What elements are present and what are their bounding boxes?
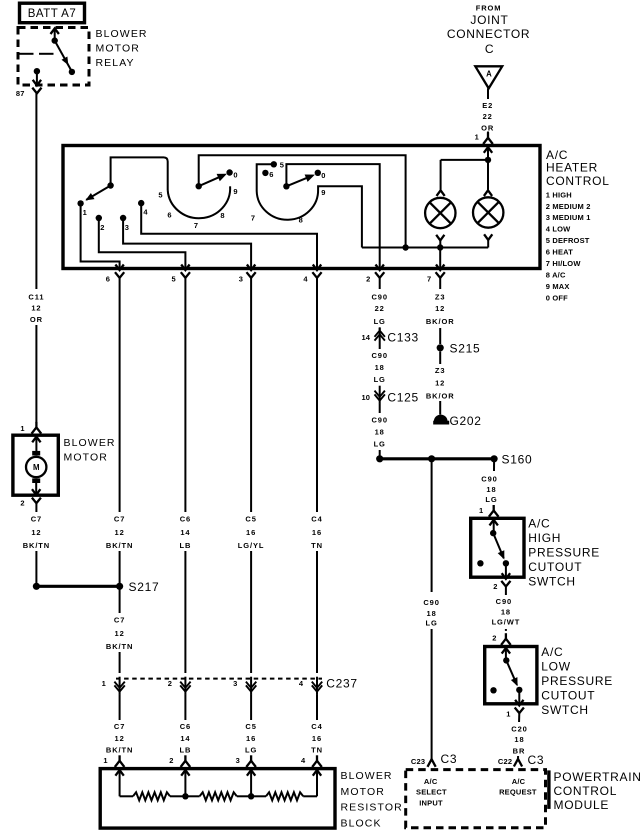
connector C237 cavity 4 symbol <box>316 677 318 695</box>
svg-text:87: 87 <box>16 89 25 98</box>
low pressure switch blade <box>506 660 517 685</box>
blower motor brush top <box>32 451 40 456</box>
svg-text:CUTOUT: CUTOUT <box>528 560 582 574</box>
S160 bus left dot <box>376 455 383 462</box>
svg-text:C125: C125 <box>387 390 419 404</box>
svg-text:3: 3 <box>239 274 243 283</box>
svg-text:16: 16 <box>312 528 322 537</box>
svg-text:8: 8 <box>299 216 303 225</box>
rotary switch 1 center dot <box>196 183 202 189</box>
fan switch contact 1 dot <box>77 200 83 206</box>
svg-text:9 MAX: 9 MAX <box>546 282 570 291</box>
svg-text:OR: OR <box>481 123 494 132</box>
low pressure switch pin 1 exit <box>518 690 520 703</box>
A/C heater control pin 7 connector <box>436 265 444 271</box>
blower motor resistor block box <box>100 769 335 829</box>
svg-text:LG/WT: LG/WT <box>492 618 521 627</box>
rotary switch 1 contact 0 dot <box>226 169 232 175</box>
svg-text:C6: C6 <box>180 722 191 731</box>
connector C237 dashed line <box>116 678 322 680</box>
relay wire to BATT A7 with up arrow <box>54 29 56 40</box>
svg-text:C5: C5 <box>245 514 256 523</box>
svg-text:Z3: Z3 <box>435 292 446 301</box>
svg-text:14: 14 <box>180 734 190 743</box>
relay switch blade <box>55 41 71 70</box>
illumination lamp 1 <box>425 198 455 228</box>
wire C6 14 LB (pin 5 to C237) <box>184 278 186 673</box>
svg-text:2: 2 <box>169 756 173 765</box>
blower motor brush bottom <box>32 478 40 483</box>
svg-text:C7: C7 <box>31 514 42 523</box>
A/C heater control pin 5 connector <box>181 265 189 271</box>
svg-text:12: 12 <box>115 629 125 638</box>
svg-text:RELAY: RELAY <box>96 57 135 69</box>
wire C20 18 BR (low pressure switch to PCM) <box>518 713 519 759</box>
joint connector A triangle symbol <box>475 66 502 88</box>
svg-text:2: 2 <box>493 582 497 591</box>
wire lamp bus to pin 7 <box>439 248 441 268</box>
svg-text:CONTROL: CONTROL <box>546 174 610 188</box>
connector fork at blower motor pin 2 <box>32 498 41 504</box>
svg-text:RESISTOR: RESISTOR <box>341 802 403 814</box>
svg-text:LG: LG <box>245 746 257 755</box>
svg-text:18: 18 <box>501 608 511 617</box>
svg-text:C23: C23 <box>411 757 425 766</box>
svg-text:BR: BR <box>513 747 526 756</box>
S160 bus right dot <box>491 455 498 462</box>
svg-text:S217: S217 <box>129 580 160 594</box>
high pressure switch top contact dot <box>490 530 496 536</box>
svg-text:C133: C133 <box>387 330 419 344</box>
svg-text:INPUT: INPUT <box>419 798 443 807</box>
lamp feed wire horizontal <box>441 159 488 161</box>
svg-text:MODULE: MODULE <box>554 798 610 812</box>
relay blade end contact dot <box>69 69 75 75</box>
svg-text:BK/TN: BK/TN <box>106 541 133 550</box>
svg-text:OR: OR <box>30 315 43 324</box>
connector fork at relay pin 87 <box>32 88 41 94</box>
svg-text:1: 1 <box>102 679 106 688</box>
svg-text:12: 12 <box>115 734 125 743</box>
relay pin 87 exit arrow <box>36 71 38 84</box>
svg-text:3: 3 <box>125 223 129 232</box>
mode switch contact 5 feed wire <box>257 164 274 191</box>
svg-text:10: 10 <box>361 393 370 402</box>
low pressure switch top contact dot <box>503 657 509 663</box>
svg-text:JOINT: JOINT <box>470 13 508 27</box>
connector at blower motor pin 1 <box>32 427 42 433</box>
svg-text:FROM: FROM <box>476 4 502 13</box>
wire contact 3 to pin 3 <box>123 218 251 268</box>
illumination lamp 2 <box>473 197 503 227</box>
resistor block pin 4 internal wire <box>316 770 318 796</box>
fan switch contact 4 dot <box>138 200 144 206</box>
svg-text:18: 18 <box>514 735 524 744</box>
wire C90 18 LG (S160 to PCM A/C select input) <box>431 459 433 759</box>
svg-text:C20: C20 <box>511 724 527 733</box>
connector C237 cavity 2 symbol <box>184 677 186 695</box>
svg-text:M: M <box>33 463 40 472</box>
svg-text:C7: C7 <box>114 514 125 523</box>
resistor block pin 3 connector <box>246 761 256 767</box>
illumination feed dot <box>487 147 489 160</box>
fan switch rotary arc <box>168 186 230 218</box>
svg-text:C90: C90 <box>481 475 497 484</box>
svg-text:LG: LG <box>374 317 386 326</box>
svg-text:LB: LB <box>179 541 191 550</box>
mode switch arc output wire <box>318 186 362 247</box>
svg-text:12: 12 <box>31 304 41 313</box>
svg-text:BLOWER: BLOWER <box>341 770 393 782</box>
svg-text:LG: LG <box>425 619 437 628</box>
svg-text:TN: TN <box>311 541 323 550</box>
svg-text:REQUEST: REQUEST <box>499 788 537 797</box>
powertrain control module dashed box <box>406 770 546 828</box>
svg-text:C11: C11 <box>28 292 44 301</box>
svg-text:8 A/C: 8 A/C <box>546 270 566 279</box>
resistor R2 <box>185 795 199 797</box>
lamp 1 connector bottom <box>436 235 444 241</box>
svg-text:BK/TN: BK/TN <box>106 746 133 755</box>
svg-text:14: 14 <box>180 528 190 537</box>
svg-text:C90: C90 <box>371 351 387 360</box>
A/C heater control pin 4 connector <box>313 265 321 271</box>
svg-text:BK/TN: BK/TN <box>106 642 133 651</box>
relay terminal 87 contact dot <box>34 68 40 74</box>
resistor block pin 3 internal wire <box>250 770 252 796</box>
lamp bus junction dot right <box>437 244 443 250</box>
svg-text:C7: C7 <box>114 615 125 624</box>
svg-text:3 MEDIUM 1: 3 MEDIUM 1 <box>546 213 591 222</box>
low pressure switch bottom contact dot <box>516 687 522 693</box>
svg-text:2: 2 <box>100 223 104 232</box>
svg-text:22: 22 <box>375 304 385 313</box>
splice S215 dot <box>437 344 444 351</box>
PCM label bracket bar <box>547 770 550 809</box>
svg-text:18: 18 <box>486 485 496 494</box>
svg-text:C4: C4 <box>311 514 322 523</box>
svg-text:Z3: Z3 <box>435 366 446 375</box>
svg-text:C3: C3 <box>441 752 458 766</box>
svg-text:12: 12 <box>31 528 41 537</box>
svg-text:1: 1 <box>83 208 87 217</box>
resistor junction dot 2 <box>248 793 254 799</box>
resistor block pin 1 connector <box>115 761 125 767</box>
wire Z3 12 BK/OR (pin 7 to S215) <box>439 278 441 344</box>
svg-text:1: 1 <box>475 132 479 141</box>
svg-text:C90: C90 <box>371 416 387 425</box>
lamp 2 connector bottom <box>484 234 492 240</box>
connector C237 cavity 3 symbol <box>250 677 252 695</box>
svg-text:A: A <box>486 70 492 79</box>
svg-text:6: 6 <box>106 274 110 283</box>
svg-text:LG: LG <box>374 375 386 384</box>
svg-text:C6: C6 <box>180 514 191 523</box>
fan switch contact 2 dot <box>96 215 102 221</box>
svg-text:12: 12 <box>435 304 445 313</box>
svg-text:S215: S215 <box>450 341 481 355</box>
svg-text:BLOCK: BLOCK <box>341 817 382 829</box>
fan switch feed wire (pivot to arc) <box>111 157 168 190</box>
svg-text:PRESSURE: PRESSURE <box>528 546 600 560</box>
low pressure switch open contact dot <box>490 687 496 693</box>
svg-text:C3: C3 <box>528 753 545 767</box>
A/C high pressure cutout switch box <box>471 518 524 577</box>
svg-text:A/C: A/C <box>541 645 563 659</box>
fan switch pivot dot <box>107 182 113 188</box>
wire contact 1 to pin 6 <box>81 203 120 267</box>
svg-text:BK/OR: BK/OR <box>426 391 455 400</box>
svg-text:C22: C22 <box>498 757 512 766</box>
svg-text:SWTCH: SWTCH <box>541 703 589 717</box>
wire C7 12 BK/TN (C237 to resistor block pin 1) <box>119 695 121 756</box>
wire C6 14 LB (C237 to resistor block pin 2) <box>184 695 186 756</box>
svg-text:LG: LG <box>374 440 386 449</box>
mode switch contact 5 dot <box>271 161 277 167</box>
svg-text:MOTOR: MOTOR <box>64 452 108 464</box>
svg-text:1: 1 <box>506 709 510 718</box>
svg-text:C237: C237 <box>326 677 358 691</box>
svg-text:5 DEFROST: 5 DEFROST <box>546 236 590 245</box>
svg-text:12: 12 <box>115 528 125 537</box>
wire C90 22 LG (pin 2 to C133) <box>379 278 381 330</box>
resistor R1 <box>120 795 133 797</box>
connector C237 cavity 1 symbol <box>119 677 121 695</box>
svg-text:A/C: A/C <box>424 777 438 786</box>
wire contact 2 to pin 5 <box>99 218 186 268</box>
svg-text:BK/TN: BK/TN <box>23 541 50 550</box>
svg-text:16: 16 <box>246 528 256 537</box>
svg-text:2 MEDIUM 2: 2 MEDIUM 2 <box>546 202 591 211</box>
wire C4 16 TN (pin 4 to C237) <box>316 278 318 673</box>
wire Z3 12 BK/OR (S215 to G202) <box>439 351 441 414</box>
svg-text:4: 4 <box>143 208 148 217</box>
low pressure switch internal wire <box>505 648 507 660</box>
resistor block pin 4 connector <box>312 761 322 767</box>
splice S217 left dot <box>33 583 40 590</box>
svg-text:TN: TN <box>311 746 323 755</box>
svg-text:C4: C4 <box>311 722 322 731</box>
wire contact 4 to pin 4 <box>141 203 317 267</box>
svg-text:4: 4 <box>303 274 308 283</box>
wire C5 16 LG (C237 to resistor block pin 3) <box>250 695 252 756</box>
svg-text:9: 9 <box>321 188 325 197</box>
wire C90 18 LG (C133 to C125) <box>379 346 381 387</box>
fan switch contact 3 dot <box>120 215 126 221</box>
svg-text:18: 18 <box>375 428 385 437</box>
svg-text:CONTROL: CONTROL <box>554 784 618 798</box>
relay common node dot <box>52 37 58 43</box>
svg-text:9: 9 <box>233 187 237 196</box>
lamp return bus <box>362 247 488 249</box>
svg-text:1: 1 <box>103 756 107 765</box>
svg-text:CONNECTOR: CONNECTOR <box>447 27 530 41</box>
svg-text:7 HI/LOW: 7 HI/LOW <box>546 259 582 268</box>
svg-text:7: 7 <box>251 214 255 223</box>
svg-text:7: 7 <box>427 274 431 283</box>
svg-text:4: 4 <box>301 756 306 765</box>
splice S217 bus <box>36 585 119 588</box>
svg-text:PRESSURE: PRESSURE <box>541 674 613 688</box>
S160 bus middle dot <box>428 455 435 462</box>
resistor block pin 2 connector <box>181 761 191 767</box>
svg-text:BK/OR: BK/OR <box>426 317 455 326</box>
wire C5 16 LG/YL (pin 3 to C237) <box>250 278 252 673</box>
blower motor M circle <box>26 457 46 477</box>
svg-text:HEATER: HEATER <box>546 160 598 174</box>
A/C heater control box <box>63 146 540 269</box>
fan switch blade with arrow <box>86 186 110 200</box>
wire C90 18 LG (S160 to high pressure switch) <box>493 459 495 505</box>
svg-text:1: 1 <box>479 506 483 515</box>
svg-text:14: 14 <box>361 333 370 342</box>
mode switch center dot <box>283 183 289 189</box>
svg-text:MOTOR: MOTOR <box>96 42 140 54</box>
A/C heater control pin 2 connector <box>376 265 384 271</box>
svg-text:16: 16 <box>246 734 256 743</box>
resistor R3 <box>251 795 266 797</box>
connector at low pressure switch pin 2 <box>501 639 511 645</box>
lamp 2 connector top <box>487 160 489 190</box>
wire C11 12 OR (relay 87 to blower motor) <box>35 93 37 422</box>
svg-text:18: 18 <box>375 363 385 372</box>
svg-text:BATT A7: BATT A7 <box>28 8 76 20</box>
svg-text:8: 8 <box>220 211 224 220</box>
svg-text:E2: E2 <box>482 101 493 110</box>
svg-text:C90: C90 <box>423 598 439 607</box>
high pressure switch open contact dot <box>477 560 483 566</box>
connector C133 symbol <box>379 327 381 345</box>
ground G202 symbol <box>434 415 448 422</box>
splice S217 right dot <box>116 583 123 590</box>
wire C4 16 TN (C237 to resistor block pin 4) <box>316 695 318 756</box>
lamp 1 connector top <box>440 160 442 190</box>
svg-text:POWERTRAIN: POWERTRAIN <box>554 770 640 784</box>
svg-text:12: 12 <box>435 379 445 388</box>
svg-text:2: 2 <box>492 633 496 642</box>
svg-text:C90: C90 <box>371 292 387 301</box>
svg-text:LOW: LOW <box>541 660 570 674</box>
splice S160 bus <box>380 457 494 460</box>
svg-text:C: C <box>485 42 494 56</box>
wire C90 18 LG/WT (high to low pressure switch) <box>505 587 507 631</box>
svg-text:LB: LB <box>179 746 191 755</box>
svg-text:3: 3 <box>233 679 237 688</box>
wire C7 12 BK/TN (blower motor to splice S217) <box>35 503 37 586</box>
svg-text:A/C: A/C <box>512 777 526 786</box>
svg-text:2: 2 <box>366 274 370 283</box>
high pressure switch pin 2 exit <box>505 563 507 576</box>
high pressure switch internal wire <box>493 520 495 533</box>
svg-text:4 LOW: 4 LOW <box>546 225 571 234</box>
lamp bus junction dot left <box>402 244 408 250</box>
blower motor internal wire bottom <box>35 483 37 495</box>
svg-text:MOTOR: MOTOR <box>341 786 385 798</box>
high pressure switch blade <box>493 533 504 558</box>
svg-text:6: 6 <box>269 170 273 179</box>
svg-text:5: 5 <box>158 191 162 200</box>
svg-text:18: 18 <box>427 609 437 618</box>
svg-text:0 OFF: 0 OFF <box>546 293 568 302</box>
svg-text:S160: S160 <box>502 452 533 466</box>
blower motor pin 2 exit arrow <box>32 489 40 495</box>
rotary switch 1 wiper arrow <box>199 175 225 186</box>
svg-text:CUTOUT: CUTOUT <box>541 689 595 703</box>
svg-text:C7: C7 <box>114 722 125 731</box>
blower motor relay K1 dashed box <box>18 28 89 86</box>
svg-text:C5: C5 <box>245 722 256 731</box>
svg-text:HIGH: HIGH <box>528 531 561 545</box>
mode switch wiper arrow <box>286 176 312 187</box>
wire C90 18 LG (C125 to splice S160 bus) <box>379 404 381 459</box>
svg-text:C90: C90 <box>496 597 512 606</box>
svg-text:2: 2 <box>20 499 24 508</box>
mode switch contact 6 dot <box>262 170 268 176</box>
svg-text:SELECT: SELECT <box>416 788 447 797</box>
wire E2 from joint connector to A/C heater control pin 1 <box>487 88 489 133</box>
wire C7 12 BK/TN (pin 6 to splice S217) <box>119 278 121 587</box>
svg-text:LG: LG <box>485 495 497 504</box>
svg-text:7: 7 <box>194 221 198 230</box>
connector at high pressure switch pin 1 <box>489 511 499 517</box>
mode switch rotary arc <box>257 190 318 220</box>
svg-text:16: 16 <box>312 734 322 743</box>
A/C low pressure cutout switch box <box>485 647 537 704</box>
connector at A/C heater control pin 1 <box>483 138 493 144</box>
mode switch output wire to pin 2 <box>286 164 379 267</box>
svg-text:G202: G202 <box>450 414 482 428</box>
svg-text:5: 5 <box>172 274 176 283</box>
svg-text:LG/YL: LG/YL <box>238 541 265 550</box>
svg-text:BLOWER: BLOWER <box>64 437 116 449</box>
svg-text:5: 5 <box>280 161 284 170</box>
blower motor M1 box <box>13 435 58 495</box>
resistor block pin 2 internal wire <box>184 770 186 796</box>
svg-text:2: 2 <box>168 679 172 688</box>
rotary switch 1 output wire to lamp bus <box>199 155 406 247</box>
svg-text:22: 22 <box>483 112 493 121</box>
svg-text:1 HIGH: 1 HIGH <box>546 190 572 199</box>
svg-text:3: 3 <box>236 756 240 765</box>
resistor junction dot 1 <box>182 793 188 799</box>
resistor block pin 1 internal wire <box>119 770 121 796</box>
svg-text:BLOWER: BLOWER <box>96 28 148 40</box>
mode switch contact 0 dot <box>315 170 321 176</box>
high pressure switch bottom contact dot <box>503 560 509 566</box>
A/C heater control pin 6 connector <box>115 265 123 271</box>
svg-text:SWTCH: SWTCH <box>528 575 576 589</box>
svg-text:0: 0 <box>321 171 325 180</box>
svg-text:0: 0 <box>233 171 237 180</box>
relay coil dashes <box>18 53 34 55</box>
connector C3 at PCM pin C22 <box>514 759 522 767</box>
svg-text:4: 4 <box>299 679 304 688</box>
svg-text:A/C: A/C <box>528 517 550 531</box>
svg-text:1: 1 <box>20 424 24 433</box>
svg-text:6: 6 <box>167 211 171 220</box>
A/C heater control pin 3 connector <box>247 265 255 271</box>
blower motor internal wire top <box>35 437 37 452</box>
connector C3 at PCM pin C23 <box>428 759 436 767</box>
connector C125 symbol <box>379 386 381 404</box>
wire C7 12 BK/TN (S217 to C237) <box>119 586 121 673</box>
svg-text:6 HEAT: 6 HEAT <box>546 248 574 257</box>
power source box BATT A7 <box>20 3 85 23</box>
